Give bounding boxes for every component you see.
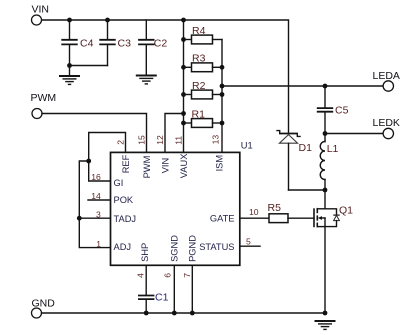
resistor R4: [184, 25, 223, 44]
svg-text:3: 3: [96, 209, 101, 219]
capacitor C2: [138, 20, 167, 75]
node R2 left: [181, 92, 186, 97]
resistor R3: [184, 52, 223, 71]
terminal LEDA: [373, 70, 400, 91]
node C5 top / LEDA: [323, 84, 328, 89]
wire STATUS stub: [240, 245, 260, 247]
terminal VIN: [32, 4, 50, 25]
node VIN rail / C4: [67, 18, 72, 23]
svg-text:GND: GND: [32, 297, 56, 309]
node SGND / GND rail: [172, 311, 177, 316]
wire VIN rail: [42, 20, 289, 133]
svg-text:PWM: PWM: [31, 92, 57, 104]
wire REF bracket to GI: [89, 133, 126, 182]
node R1 left: [181, 121, 186, 126]
transistor Q1 (N-MOSFET): [314, 190, 353, 313]
svg-text:R4: R4: [192, 25, 206, 37]
svg-text:ADJ: ADJ: [114, 242, 132, 252]
svg-text:Q1: Q1: [339, 204, 353, 216]
svg-text:C3: C3: [118, 37, 132, 49]
node Q1 source / GND rail: [323, 311, 328, 316]
node switch: [323, 188, 328, 193]
svg-text:1: 1: [96, 239, 101, 249]
svg-text:SHP: SHP: [140, 243, 150, 262]
wire TADJ stub: [79, 217, 110, 219]
svg-text:VIN: VIN: [32, 4, 50, 16]
svg-text:REF: REF: [121, 154, 131, 173]
terminal PWM: [31, 92, 57, 118]
op-amp U1 (IC body): [111, 141, 253, 266]
wire GATE to R5: [240, 217, 269, 219]
terminal LEDK: [373, 117, 400, 139]
svg-text:13: 13: [211, 135, 221, 145]
resistor R2: [184, 80, 223, 99]
svg-text:U1: U1: [241, 141, 253, 151]
svg-text:ISM: ISM: [214, 155, 224, 172]
svg-text:VIN: VIN: [160, 158, 170, 174]
wire PGND stub: [191, 265, 193, 313]
node PGND / GND rail: [190, 311, 195, 316]
wire C4-C3 link: [70, 65, 108, 67]
capacitor C4: [61, 20, 93, 76]
wire PWM to pin 15: [42, 114, 147, 153]
wire LEDA line: [222, 85, 383, 87]
svg-text:15: 15: [137, 135, 147, 145]
wire ladder right (ISM riser): [221, 40, 223, 153]
ground below C2: [136, 76, 157, 84]
resistor R5: [268, 202, 315, 223]
svg-text:2: 2: [116, 140, 126, 145]
capacitor C1: [138, 265, 169, 313]
svg-text:POK: POK: [114, 195, 134, 205]
resistor R1: [184, 108, 223, 127]
svg-text:LEDA: LEDA: [373, 70, 400, 82]
svg-text:TADJ: TADJ: [114, 214, 137, 224]
svg-text:GATE: GATE: [210, 213, 235, 223]
terminal GND: [32, 297, 56, 318]
wire GND rail: [42, 312, 326, 314]
svg-text:5: 5: [246, 236, 251, 246]
node R1 right: [220, 121, 225, 126]
svg-text:7: 7: [182, 273, 192, 278]
svg-text:VAUX: VAUX: [179, 154, 189, 179]
ground below Q1: [315, 321, 336, 329]
inductor L1: [320, 134, 338, 191]
svg-text:C5: C5: [335, 104, 349, 116]
node R4 left: [181, 37, 186, 42]
svg-text:PGND: PGND: [188, 235, 198, 262]
wire LEDK line: [325, 133, 383, 135]
wire POK stub: [88, 199, 111, 201]
node VIN branch / ladder: [181, 111, 186, 116]
svg-text:10: 10: [249, 207, 259, 217]
capacitor C5: [317, 86, 349, 134]
svg-text:12: 12: [155, 135, 165, 145]
svg-text:R5: R5: [268, 202, 282, 214]
node C4-C3 junction: [67, 63, 72, 68]
node VIN rail / C3: [105, 18, 110, 23]
node R3 right: [220, 65, 225, 70]
node C1 / GND rail: [144, 311, 149, 316]
svg-text:STATUS: STATUS: [199, 242, 234, 252]
wire D1 anode to switch node: [289, 189, 326, 191]
svg-text:C4: C4: [80, 37, 94, 49]
ground below C4: [59, 76, 80, 84]
svg-text:11: 11: [174, 136, 184, 145]
svg-text:6: 6: [163, 273, 173, 278]
svg-text:R2: R2: [192, 80, 206, 92]
svg-text:16: 16: [91, 172, 101, 182]
node R3 left: [181, 65, 186, 70]
node REF bracket: [86, 159, 91, 164]
wire ladder left (VAUX riser): [183, 20, 185, 152]
svg-text:D1: D1: [299, 142, 313, 154]
svg-text:SGND: SGND: [169, 235, 179, 262]
svg-text:C1: C1: [155, 292, 169, 304]
svg-text:C2: C2: [154, 38, 168, 50]
wire VIN pin branch: [165, 114, 184, 153]
node R2 right: [220, 92, 225, 97]
svg-text:R3: R3: [192, 52, 206, 64]
svg-text:R1: R1: [192, 108, 206, 120]
capacitor C3: [99, 20, 131, 66]
diode D1 (Schottky): [277, 131, 312, 190]
svg-text:LEDK: LEDK: [373, 117, 400, 129]
svg-text:PWM: PWM: [142, 156, 152, 179]
node VIN rail / ladder: [181, 18, 186, 23]
svg-text:L1: L1: [327, 143, 339, 155]
node C5 / L1 / LEDK: [323, 131, 328, 136]
svg-text:4: 4: [135, 273, 145, 278]
wire left branch to TADJ and ADJ: [79, 161, 110, 248]
node TADJ branch: [77, 216, 82, 221]
wire SGND stub: [173, 265, 175, 313]
svg-text:14: 14: [91, 191, 101, 201]
svg-text:GI: GI: [114, 178, 124, 188]
node LEDA / ladder right: [220, 84, 225, 89]
